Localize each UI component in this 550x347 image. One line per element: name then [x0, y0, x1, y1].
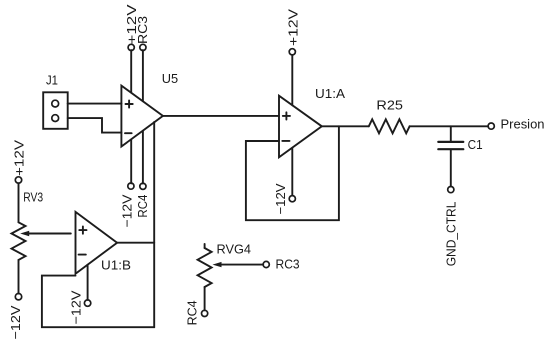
svg-text:C1: C1: [468, 137, 483, 152]
svg-text:−12V: −12V: [273, 183, 288, 214]
svg-text:U1:B: U1:B: [101, 257, 131, 272]
svg-text:Presion: Presion: [501, 117, 545, 132]
svg-text:−12V: −12V: [8, 305, 23, 339]
svg-text:+12V: +12V: [285, 9, 300, 46]
svg-text:RV3: RV3: [23, 189, 43, 204]
svg-text:RC4: RC4: [135, 195, 150, 218]
svg-text:RC3: RC3: [276, 257, 300, 272]
svg-text:J1: J1: [46, 72, 58, 87]
svg-text:−12V: −12V: [68, 290, 83, 324]
svg-text:−12V: −12V: [120, 194, 135, 227]
svg-text:GND_CTRL: GND_CTRL: [443, 202, 458, 267]
svg-text:RC3: RC3: [135, 16, 150, 44]
svg-text:U1:A: U1:A: [315, 86, 345, 101]
svg-text:U5: U5: [162, 71, 178, 86]
svg-text:RC4: RC4: [185, 300, 200, 325]
svg-text:+12V: +12V: [12, 140, 27, 176]
svg-text:RVG4: RVG4: [217, 242, 252, 257]
svg-text:R25: R25: [376, 98, 403, 113]
